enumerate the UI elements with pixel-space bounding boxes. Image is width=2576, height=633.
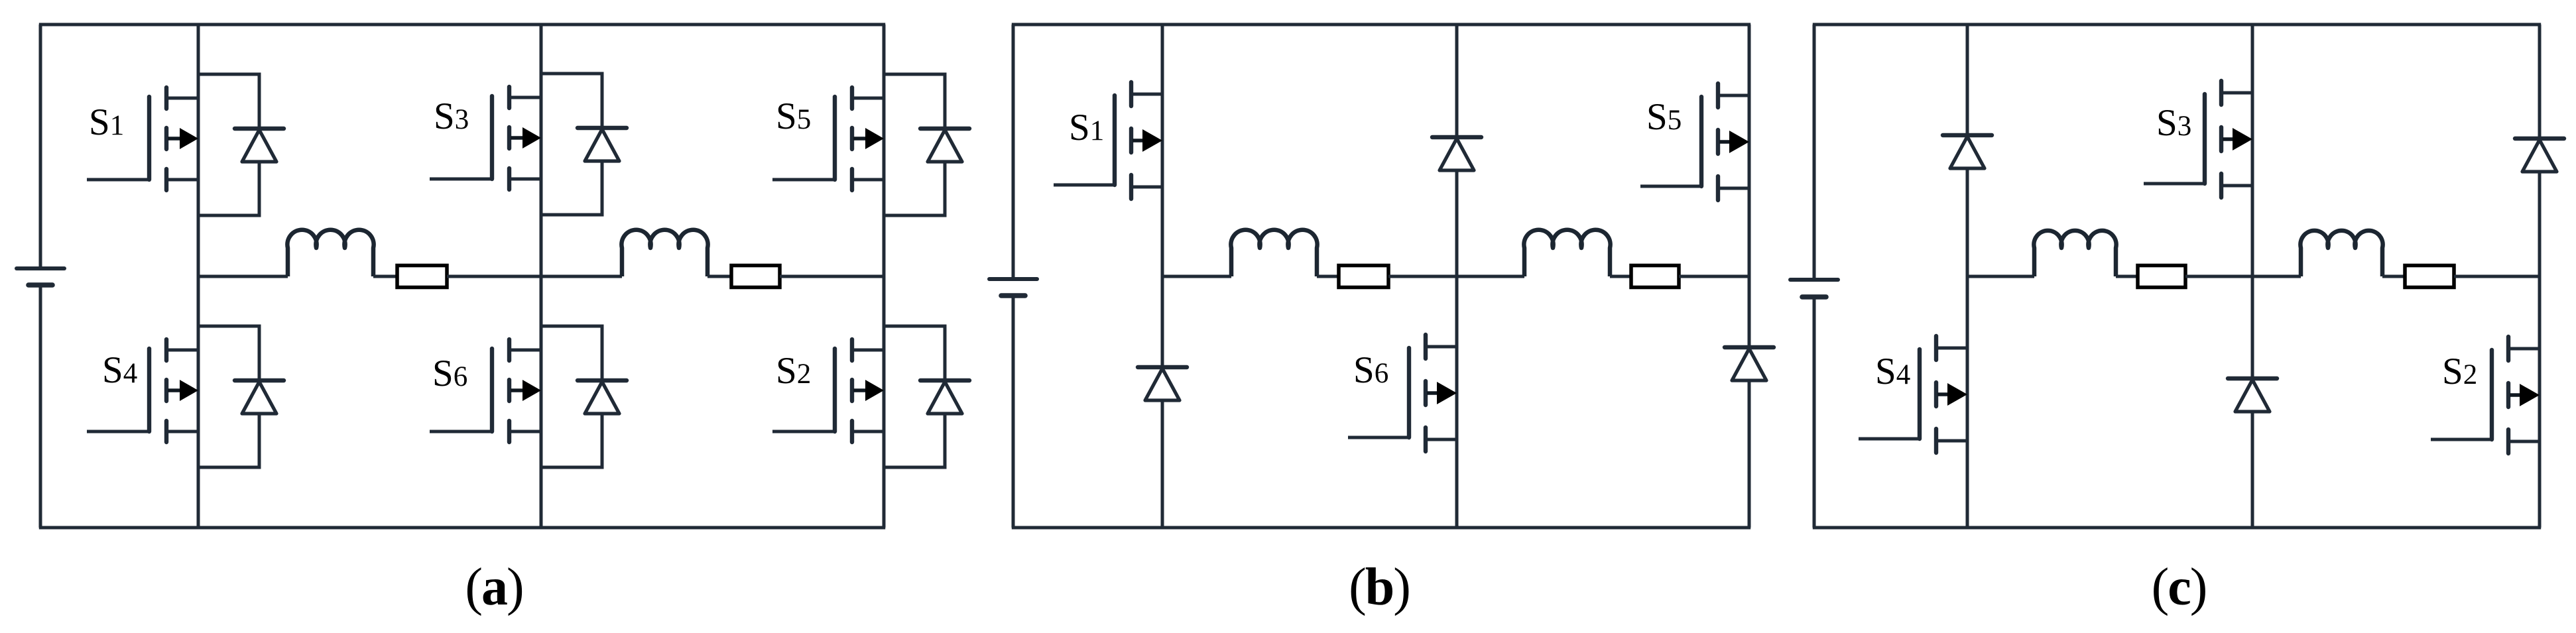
label S6 (a) — [432, 353, 467, 394]
wire (a) phase leg 3 / right edge — [883, 25, 886, 528]
transistor S5 (b) — [1640, 84, 1749, 200]
transistor S5 (a) — [772, 87, 884, 190]
wire (a) mid rail leg1-to-L1 — [198, 275, 288, 278]
svg-text:S1: S1 — [1069, 107, 1104, 148]
wire (a) mid rail R2-to-leg3 — [780, 275, 884, 278]
wire (b) phase leg 3 / right edge lower — [1748, 380, 1751, 528]
label S4 (c) — [1875, 351, 1910, 392]
wire (a) phase leg 2 — [540, 25, 543, 528]
wire (c) left edge upper (to battery) — [1813, 25, 1816, 280]
transistor S4 (c) — [1859, 336, 1967, 453]
svg-text:S3: S3 — [434, 95, 469, 137]
transistor S1 (a) — [87, 87, 198, 190]
inductor L2 (c) — [2300, 231, 2382, 276]
wire (b) phase leg 1 upper — [1161, 25, 1164, 367]
svg-text:S2: S2 — [2442, 351, 2477, 392]
wire (a) mid rail L2-to-R2 — [707, 275, 731, 278]
label S2 (c) — [2442, 351, 2477, 392]
label S5 (a) — [776, 95, 811, 137]
wire (b) mid rail R2-to-leg3 — [1679, 275, 1749, 278]
wire (c) bottom rail — [1813, 526, 2541, 530]
wire (a) mid rail leg2-to-L2 — [541, 275, 622, 278]
svg-text:S4: S4 — [102, 349, 137, 391]
battery V1 (c) (DC source) — [1790, 280, 1838, 297]
label S2 (a) — [776, 350, 811, 392]
transistor S2 (a) — [772, 339, 884, 442]
wire (c) phase leg 1 lower — [1966, 168, 1969, 528]
inductor L2 (a) — [621, 230, 707, 276]
resistor R1 (b) — [1339, 266, 1388, 288]
transistor S3 (a) — [430, 87, 541, 190]
wire (a) mid rail L1-to-R1 — [373, 275, 397, 278]
wire (b) phase leg 2 lower — [1455, 170, 1459, 528]
resistor R2 (b) — [1631, 266, 1679, 288]
wire (c) phase leg 3 / right edge upper — [2538, 25, 2542, 139]
wire (b) phase leg 1 lower — [1161, 400, 1164, 528]
label S5 (b) — [1646, 96, 1682, 138]
svg-text:S4: S4 — [1875, 351, 1910, 392]
caption (c) — [2152, 558, 2207, 616]
diode D2 (b) on leg 3 — [1725, 347, 1774, 380]
resistor R2 (a) — [731, 266, 780, 288]
diode D4 (b) on leg 1 — [1138, 367, 1187, 400]
caption (b) — [1349, 558, 1410, 616]
diode D5 (a) (anti-parallel) — [884, 74, 969, 215]
svg-text:(c): (c) — [2152, 558, 2207, 616]
transistor S2 (c) — [2431, 337, 2540, 453]
wire (b) phase leg 2 upper — [1455, 25, 1459, 137]
label S6 (b) — [1353, 349, 1388, 391]
caption (a) — [465, 558, 522, 616]
wire (b) bottom rail — [1012, 526, 1750, 530]
wire (b) mid rail R1-to-leg2 — [1388, 275, 1457, 278]
wire (c) phase leg 1 upper — [1966, 25, 1969, 135]
wire (b) mid rail L1-to-R1 — [1317, 275, 1339, 278]
inductor L1 (c) — [2034, 231, 2116, 276]
transistor S4 (a) — [87, 339, 198, 442]
battery V1 (b) (DC source) — [989, 279, 1037, 296]
label S1 (b) — [1069, 107, 1104, 148]
wire (c) mid rail L2-to-R2 — [2382, 275, 2405, 278]
wire (c) left edge lower (from battery) — [1813, 297, 1816, 528]
wire (a) mid rail R1-to-leg2 — [447, 275, 541, 278]
wire (c) mid rail R2-to-leg3 — [2454, 275, 2540, 278]
wire (c) mid rail leg2-to-L2 — [2252, 275, 2301, 278]
inductor L1 (a) — [287, 230, 373, 276]
wire (b) mid rail L2-to-R2 — [1610, 275, 1631, 278]
wire (c) phase leg 2 upper — [2251, 25, 2254, 378]
svg-text:S2: S2 — [776, 350, 811, 392]
wire (b) left edge lower (from battery) — [1012, 296, 1015, 528]
wire (b) mid rail leg2-to-L2 — [1457, 275, 1524, 278]
label S1 (a) — [89, 101, 124, 143]
wire (c) mid rail L1-to-R1 — [2116, 275, 2138, 278]
wire (a) left edge lower (from battery) — [39, 285, 42, 528]
diode D2 (a) (anti-parallel) — [884, 326, 969, 467]
svg-text:S1: S1 — [89, 101, 124, 143]
resistor R1 (a) — [397, 266, 447, 288]
diode D3 (a) (anti-parallel) — [541, 74, 627, 215]
transistor S6 (a) — [430, 339, 541, 442]
diode D3 (b) on leg 2 — [1432, 137, 1481, 170]
svg-text:S6: S6 — [1353, 349, 1388, 391]
wire (c) phase leg 2 lower — [2251, 412, 2254, 528]
wire (c) mid rail leg1-to-L1 — [1967, 275, 2034, 278]
inductor L2 (b) — [1524, 230, 1610, 276]
diode D6 (c) on leg 1 — [1943, 135, 1992, 168]
resistor R1 (c) — [2138, 266, 2185, 288]
wire (b) mid rail leg1-to-L1 — [1162, 275, 1231, 278]
resistor R2 (c) — [2405, 266, 2454, 288]
label S3 (a) — [434, 95, 469, 137]
wire (b) left edge upper (to battery) — [1012, 25, 1015, 279]
diode D4 (a) (anti-parallel) — [198, 326, 284, 467]
svg-text:S3: S3 — [2156, 102, 2191, 144]
svg-text:S6: S6 — [432, 353, 467, 394]
inductor L1 (b) — [1231, 230, 1317, 276]
label S3 (c) — [2156, 102, 2191, 144]
wire (b) top rail — [1012, 23, 1750, 27]
diode D6 (a) (anti-parallel) — [541, 326, 627, 467]
transistor S6 (b) — [1348, 335, 1457, 451]
wire (a) left edge upper (to battery) — [39, 25, 42, 268]
svg-text:S5: S5 — [1646, 96, 1682, 138]
label S4 (a) — [102, 349, 137, 391]
diode D5 (c) on leg 2 — [2228, 378, 2277, 412]
wire (c) mid rail R1-to-leg2 — [2185, 275, 2252, 278]
battery V1 (a) (DC source) — [17, 268, 64, 285]
wire (a) phase leg 1 — [197, 25, 200, 528]
diode D1 (c) on leg 3 — [2515, 139, 2564, 172]
svg-text:(a): (a) — [465, 558, 522, 616]
wire (a) top rail — [39, 23, 885, 27]
wire (b) phase leg 3 / right edge upper — [1748, 25, 1751, 347]
svg-text:(b): (b) — [1349, 558, 1410, 616]
diode D1 (a) (anti-parallel) — [198, 74, 284, 215]
transistor S3 (c) — [2144, 81, 2252, 198]
wire (a) bottom rail — [39, 526, 885, 530]
svg-text:S5: S5 — [776, 95, 811, 137]
wire (c) phase leg 3 / right edge lower — [2538, 172, 2542, 528]
wire (c) top rail — [1813, 23, 2541, 27]
transistor S1 (b) — [1054, 82, 1162, 199]
